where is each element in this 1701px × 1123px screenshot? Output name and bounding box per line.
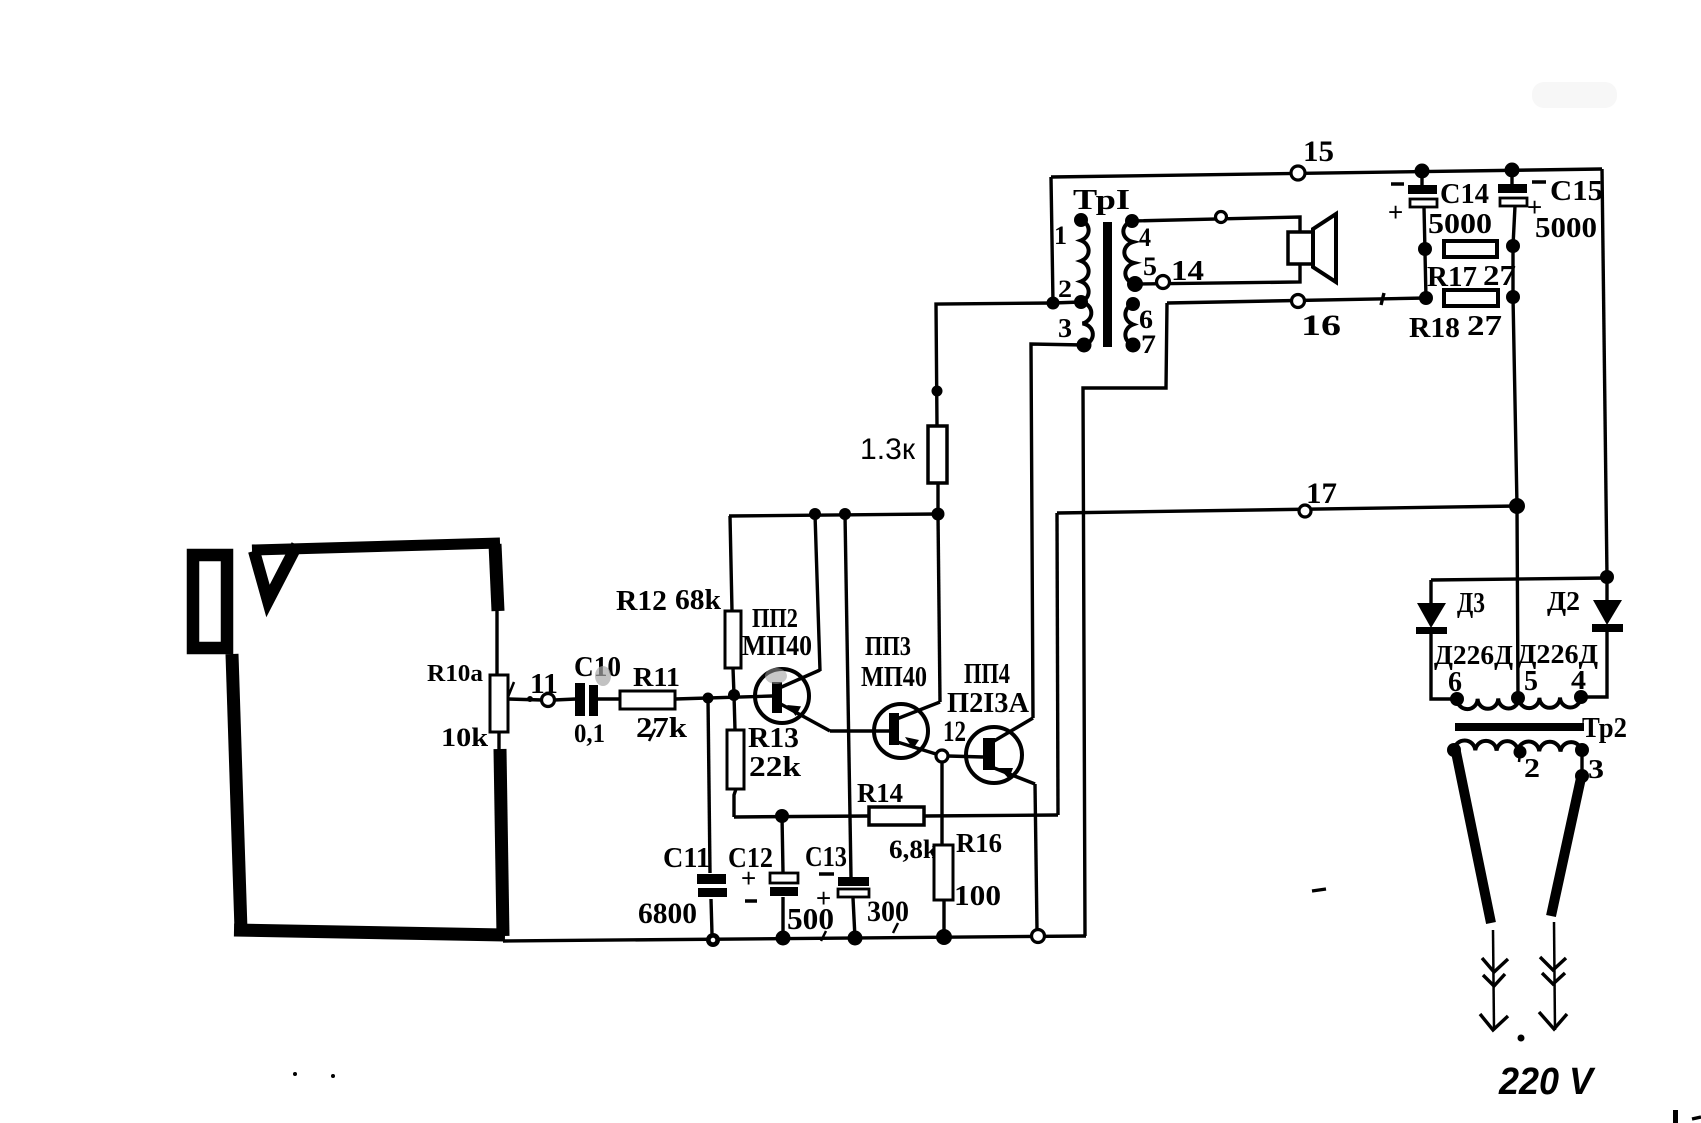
terminal (unnumbered) on pin-4 wire (1216, 212, 1227, 223)
wire: R13 to bias line (734, 789, 736, 817)
mains arrow left (1480, 930, 1508, 1030)
svg-text:C12: C12 (728, 843, 773, 874)
svg-text:R12: R12 (616, 586, 667, 617)
Tr2 primary end 3 (1575, 743, 1604, 784)
Tr2 primary tap 2 (1514, 746, 1541, 784)
svg-text:R18: R18 (1409, 313, 1460, 344)
svg-text:4: 4 (1139, 223, 1151, 252)
wire: R14 right to 17-net corner (924, 815, 1058, 816)
mains arrow right (1539, 922, 1567, 1030)
svg-text:ПП4: ПП4 (964, 659, 1010, 690)
wire: 15 net right edge down (1602, 169, 1607, 577)
wire: R17 right down to 17 junction and Tr2 pin 5 (1513, 246, 1518, 698)
wire: R11 to base node (675, 696, 772, 699)
junction: C13 on rail (848, 931, 863, 946)
terminal 12 (936, 715, 966, 762)
svg-text:МП40: МП40 (861, 662, 927, 693)
svg-text:5000: 5000 (1428, 208, 1492, 240)
speck: dot below arrows (1518, 1035, 1525, 1042)
wire: ground rail (503, 936, 1086, 941)
wire: 15 net top horizontal (1051, 169, 1602, 177)
Tr1 pin 5 (1127, 252, 1157, 292)
Tr2 secondary winding (top) (1457, 697, 1581, 709)
junction: R18 right (1506, 290, 1520, 304)
junction: C12 on rail (776, 931, 791, 946)
blacked-out unit outline: V mark (254, 545, 297, 601)
wire: diode loop top edge (1431, 578, 1607, 580)
svg-text:10k: 10k (441, 723, 489, 752)
resistor R18 27 (1409, 290, 1502, 344)
wire: pin 5 to speaker (1135, 264, 1300, 284)
smudge top right (1532, 82, 1617, 108)
junction: C12 tap on bias line (775, 809, 789, 823)
blacked-out unit outline: top edge (252, 543, 500, 550)
speck: bottom right partial glyphs (1673, 1110, 1701, 1123)
svg-text:6,8k: 6,8k (889, 835, 939, 864)
svg-text:6800: 6800 (638, 897, 697, 930)
wire: R12 to base node (733, 668, 734, 695)
junction: 17 tap (1509, 498, 1525, 514)
junction: R17 left (1418, 242, 1432, 256)
wire: C11 vertical (708, 698, 710, 873)
wire: base node to R13 (734, 695, 735, 730)
svg-text:R16: R16 (956, 828, 1002, 858)
svg-text:15: 15 (1303, 135, 1334, 168)
mains lead right (thick) (1551, 778, 1581, 916)
Tr1 core (1103, 222, 1112, 347)
wire: 1.3k bottom lead (936, 483, 939, 514)
capacitor C12 500 (728, 843, 834, 941)
resistor R17 27 (1427, 241, 1516, 293)
capacitor C13 30,0 (805, 842, 909, 933)
svg-text:R14: R14 (857, 778, 903, 808)
svg-text:R11: R11 (633, 662, 680, 692)
Tr1 pin 7 (1126, 330, 1157, 359)
svg-text:Тр2: Тр2 (1582, 713, 1627, 744)
svg-text:Д226Д: Д226Д (1434, 640, 1513, 670)
capacitor C10 0,1 (574, 652, 621, 748)
svg-text:C14: C14 (1440, 179, 1489, 210)
junction: C11 on rail (donut) (706, 933, 720, 947)
svg-text:27: 27 (1467, 310, 1502, 342)
resistor 1.3k (860, 426, 947, 483)
wire: supply drop to C13 (845, 514, 851, 877)
wire: 17 horizontal (1057, 506, 1517, 513)
loudspeaker (1288, 214, 1336, 282)
svg-text:Д2: Д2 (1547, 586, 1580, 616)
blacked-out unit outline: left edge (232, 654, 241, 930)
wire: C14 to R17/R18 left (1424, 207, 1426, 298)
blacked-out unit outline: bottom edge (234, 930, 505, 935)
speck: tick on 16 wire (1381, 293, 1384, 305)
wire: terminal 12 to PP4 base (948, 756, 983, 757)
wire: PP3 collector to 1.3k node (938, 514, 940, 702)
Tr1 pin 2 (1058, 276, 1088, 309)
junction: C14 on 15 wire (1415, 164, 1430, 179)
svg-text:МП40: МП40 (742, 631, 812, 662)
connector block (thick hollow rectangle, left) (193, 555, 227, 648)
wire: top edge to R10a (495, 611, 498, 675)
svg-text:1.3к: 1.3к (860, 433, 916, 466)
terminal 17 (1299, 477, 1337, 517)
wire: rail to R12 (730, 516, 732, 611)
svg-text:ТрI: ТрI (1073, 184, 1130, 216)
potentiometer R10a (427, 661, 514, 752)
capacitor C15 5000 (1498, 170, 1603, 244)
svg-text:7: 7 (1141, 330, 1156, 359)
transformer Tr2 label (1582, 713, 1627, 744)
Tr2 primary winding (bottom) (1454, 740, 1582, 751)
terminal 15 (1291, 135, 1334, 180)
wire: terminal 12 down to R16 (940, 762, 943, 845)
Tr2 pin 4 (1571, 665, 1588, 704)
svg-text:ПП3: ПП3 (865, 631, 911, 661)
wire: C13 to ground rail (853, 898, 855, 938)
speck: dash near Tr2 (1312, 889, 1326, 891)
svg-text:C13: C13 (805, 842, 847, 873)
wire: loop bottom left to pin 6 (1431, 697, 1457, 699)
terminal 14 (1157, 255, 1205, 289)
Tr2 primary left end (1447, 743, 1461, 757)
transformer Tr1 label (1073, 184, 1130, 216)
wire: C12 vertical top (782, 816, 783, 872)
wire: top-left corner down to pin 2 (1051, 177, 1053, 303)
terminal 16 (1292, 295, 1342, 343)
wire: terminal 11 to C10 (554, 699, 576, 700)
junction: PP2 collector on rail (809, 508, 821, 520)
terminal 11 (530, 669, 558, 707)
junction: R16 on rail (936, 929, 952, 945)
terminal: emitter/ground node (1032, 930, 1045, 943)
svg-text:1: 1 (1054, 221, 1067, 250)
transistor PP4 P213A (947, 659, 1035, 784)
transistor PP3 MP40 (861, 631, 940, 758)
blacked-out unit outline: right edge lower (500, 749, 503, 936)
diode D3 D226D (1416, 580, 1513, 697)
wire: R10a to bottom edge (497, 732, 500, 752)
svg-text:17: 17 (1306, 477, 1337, 510)
mains lead left (thick) (1456, 752, 1491, 923)
svg-text:16: 16 (1301, 309, 1341, 342)
wire: 1.3k top to Tr1 pin 2 (936, 303, 1053, 426)
Tr1 pin 4 (1125, 214, 1151, 252)
Tr1 primary winding 1-2-3 (1081, 220, 1093, 345)
svg-text:2: 2 (1058, 276, 1072, 303)
junction: C13 on rail (839, 508, 851, 520)
wire: PP2 collector to local rail (815, 514, 820, 671)
wire: PP2 emitter to PP3 base (830, 729, 889, 733)
svg-text:Д3: Д3 (1457, 588, 1485, 619)
svg-text:R13: R13 (748, 723, 799, 754)
junction: C11 tap (703, 693, 714, 704)
wire: pin2 stub (1053, 302, 1081, 303)
Tr1 secondary winding 4-5 (1123, 221, 1135, 284)
svg-text:100: 100 (954, 881, 1001, 912)
Tr1 secondary winding 6-7 (1125, 304, 1133, 345)
svg-text:ПП2: ПП2 (752, 603, 798, 633)
svg-text:27: 27 (1483, 260, 1516, 292)
svg-text:C11: C11 (663, 843, 710, 874)
wire: C11 to ground rail (711, 899, 712, 934)
svg-text:68k: 68k (675, 585, 721, 616)
wire: C10 to R11 (598, 697, 620, 700)
capacitor C11 6800 (638, 843, 727, 930)
svg-text:2: 2 (1524, 753, 1540, 783)
svg-text:4: 4 (1571, 665, 1586, 695)
resistor R14 6,8k (857, 778, 939, 864)
svg-text:3: 3 (1058, 313, 1072, 343)
transistor PP2 MP40 (742, 603, 830, 731)
Tr1 pin 3 (1058, 313, 1092, 353)
junction: pin 2 node (1047, 297, 1060, 310)
blacked-out unit outline: right edge upper (495, 544, 498, 611)
junction: diode bridge top right (1600, 570, 1614, 584)
wire: 16 net down-left-down to ground (1083, 303, 1167, 936)
resistor R16 100 (934, 828, 1002, 912)
Tr2 core (1455, 723, 1584, 731)
svg-text:220 V: 220 V (1498, 1061, 1595, 1103)
wire: pin 4 to speaker (1132, 217, 1300, 232)
junction: R17 right (1506, 239, 1520, 253)
svg-text:5000: 5000 (1535, 212, 1597, 244)
wire: C15 down to R17 right (1513, 206, 1515, 246)
wire: local supply rail (729, 514, 938, 516)
resistor R12 68k (616, 585, 741, 668)
wire: PP4 collector up to Tr1 pin 3 (1031, 344, 1084, 718)
Tr1 pin 1 (1054, 213, 1088, 250)
capacitor C14 5000 (1388, 171, 1492, 240)
junction: 1.3k bottom node (932, 508, 945, 521)
wire: loop bottom right to pin 4 (1581, 696, 1607, 697)
wire: R16 to ground rail (942, 900, 945, 937)
smudge near C10 (595, 666, 611, 686)
smudge on PP2 bar (765, 668, 787, 684)
svg-text:27k: 27k (636, 712, 688, 744)
junction: R12/R13 base node (728, 689, 740, 701)
junction: C15 on 15 wire (1505, 163, 1520, 178)
wire: 17 corner down to R14 (1057, 513, 1058, 815)
svg-text:3: 3 (1588, 754, 1604, 784)
svg-text:Д226Д: Д226Д (1517, 639, 1598, 669)
junction: R18 left (1419, 291, 1433, 305)
svg-text:300: 300 (867, 895, 909, 928)
wire: C12 to ground rail (781, 897, 784, 938)
speck: dots bottom left (293, 1072, 335, 1078)
svg-text:C15: C15 (1550, 176, 1603, 207)
Tr2 pin 5 (1511, 666, 1538, 705)
wire: PP4 emitter down to ground (1035, 784, 1037, 930)
resistor R13 22k (727, 723, 802, 789)
wire: bias line (R13 to R14) (734, 816, 869, 817)
wire: 16 net horizontal (1167, 298, 1426, 303)
svg-text:22k: 22k (749, 751, 802, 783)
junction: blob on pin2 wire (932, 386, 943, 397)
resistor R11 27k (620, 662, 688, 744)
svg-text:5: 5 (1524, 666, 1538, 697)
svg-text:6: 6 (1448, 667, 1462, 698)
svg-text:0,1: 0,1 (574, 719, 605, 748)
Tr2 pin 6 (1448, 667, 1464, 706)
diode D2 D226D (1517, 578, 1623, 696)
svg-text:5: 5 (1143, 252, 1157, 281)
svg-text:+: + (816, 883, 831, 913)
Tr1 pin 6 (1126, 297, 1153, 334)
wire: R10a wiper to terminal 11 (508, 696, 542, 702)
svg-text:11: 11 (530, 669, 558, 700)
svg-text:+: + (1388, 197, 1403, 227)
label 220 V (1498, 1061, 1595, 1103)
svg-text:R10a: R10a (427, 661, 483, 687)
svg-text:14: 14 (1171, 255, 1204, 287)
svg-text:12: 12 (943, 715, 966, 748)
svg-text:П2I3А: П2I3А (947, 688, 1030, 719)
